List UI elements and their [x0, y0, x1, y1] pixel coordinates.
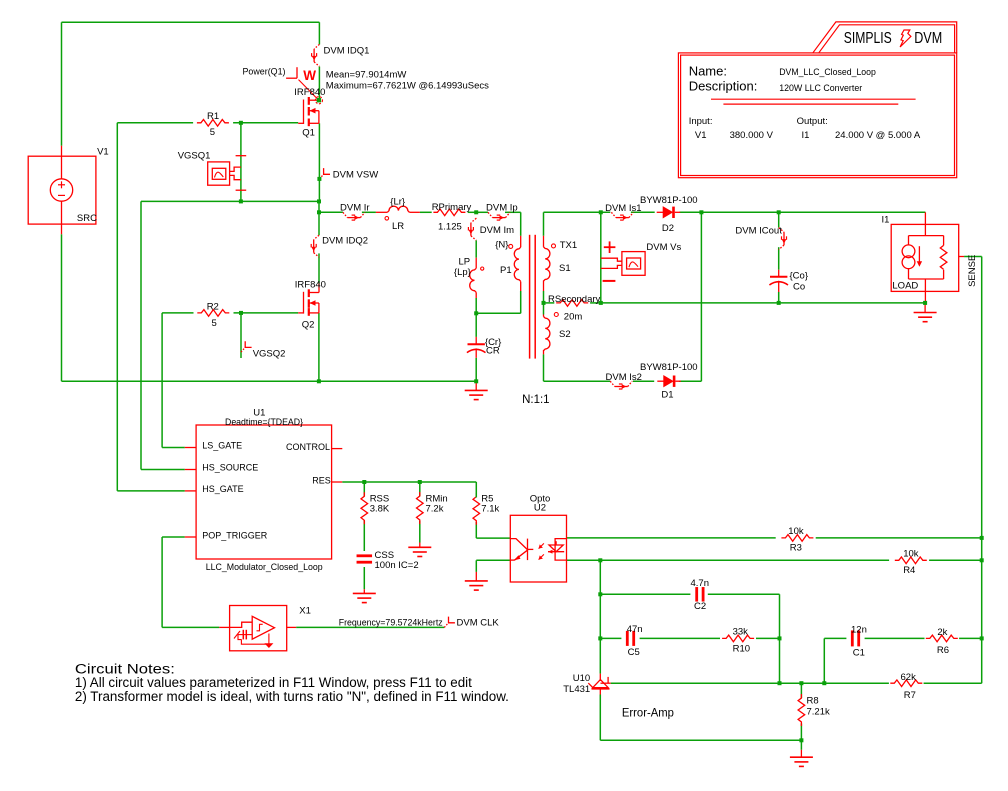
- svg-text:U2: U2: [534, 503, 546, 514]
- svg-text:V1: V1: [97, 147, 109, 158]
- svg-text:D1: D1: [661, 390, 673, 401]
- svg-text:3.8K: 3.8K: [370, 504, 390, 515]
- svg-text:I1: I1: [802, 130, 810, 141]
- svg-text:LP: LP: [459, 257, 471, 268]
- svg-text:X1: X1: [299, 605, 311, 616]
- svg-text:Q2: Q2: [302, 319, 315, 330]
- svg-text:1) All circuit values paramete: 1) All circuit values parameterized in F…: [75, 675, 472, 690]
- svg-text:Power(Q1): Power(Q1): [243, 67, 286, 78]
- svg-text:U10: U10: [573, 673, 590, 684]
- svg-text:DVM Ir: DVM Ir: [340, 203, 370, 214]
- svg-text:{Lr}: {Lr}: [390, 197, 405, 208]
- svg-text:24.000 V @ 5.000 A: 24.000 V @ 5.000 A: [835, 130, 921, 141]
- svg-text:5: 5: [210, 127, 215, 138]
- svg-text:BYW81P-100: BYW81P-100: [640, 195, 698, 206]
- svg-text:V1: V1: [695, 130, 707, 141]
- svg-text:LS_GATE: LS_GATE: [202, 440, 242, 450]
- svg-text:SRC: SRC: [77, 213, 97, 224]
- svg-text:SENSE: SENSE: [967, 255, 978, 287]
- svg-text:CONTROL: CONTROL: [286, 442, 330, 452]
- svg-text:Output:: Output:: [797, 116, 828, 127]
- svg-text:IRF840: IRF840: [294, 87, 325, 98]
- svg-text:S2: S2: [559, 329, 571, 340]
- svg-text:{Co}: {Co}: [790, 271, 809, 282]
- svg-text:TX1: TX1: [560, 240, 577, 251]
- svg-text:DVM: DVM: [914, 30, 942, 47]
- svg-text:R8: R8: [807, 696, 819, 707]
- svg-text:Description:: Description:: [689, 78, 758, 93]
- svg-text:N:1:1: N:1:1: [522, 394, 550, 406]
- svg-text:RSecondary: RSecondary: [548, 294, 601, 305]
- svg-text:Error-Amp: Error-Amp: [622, 706, 674, 720]
- svg-text:S1: S1: [559, 263, 571, 274]
- svg-text:380.000 V: 380.000 V: [730, 130, 774, 141]
- svg-text:DVM_LLC_Closed_Loop: DVM_LLC_Closed_Loop: [779, 67, 876, 78]
- svg-text:P1: P1: [500, 265, 512, 276]
- svg-text:{N}: {N}: [495, 239, 508, 250]
- svg-text:D2: D2: [662, 223, 674, 234]
- svg-text:LR: LR: [392, 221, 404, 232]
- svg-text:DVM Ip: DVM Ip: [486, 203, 518, 214]
- svg-text:12n: 12n: [851, 625, 867, 636]
- svg-text:20m: 20m: [564, 311, 583, 322]
- svg-text:2) Transformer model is ideal,: 2) Transformer model is ideal, with turn…: [75, 689, 509, 704]
- svg-text:R6: R6: [937, 645, 949, 656]
- svg-text:DVM VSW: DVM VSW: [333, 169, 378, 180]
- svg-text:R1: R1: [207, 111, 219, 122]
- svg-text:100n IC=2: 100n IC=2: [375, 560, 419, 571]
- svg-text:4.7n: 4.7n: [691, 578, 710, 589]
- svg-text:DVM CLK: DVM CLK: [457, 617, 500, 628]
- svg-text:Co: Co: [793, 281, 805, 292]
- svg-text:7.1k: 7.1k: [481, 504, 499, 515]
- svg-text:7.21k: 7.21k: [807, 707, 830, 718]
- svg-text:7.2k: 7.2k: [426, 504, 444, 515]
- svg-text:LOAD: LOAD: [892, 281, 918, 292]
- svg-text:10k: 10k: [788, 526, 804, 537]
- svg-text:Maximum=67.7621W @6.14993uSecs: Maximum=67.7621W @6.14993uSecs: [326, 80, 489, 91]
- svg-text:SIMPLIS: SIMPLIS: [844, 30, 892, 47]
- svg-text:R2: R2: [207, 301, 219, 312]
- svg-text:Q1: Q1: [302, 127, 315, 138]
- svg-text:R3: R3: [790, 542, 802, 553]
- svg-text:DVM Im: DVM Im: [480, 225, 514, 236]
- svg-text:RPrimary: RPrimary: [432, 202, 472, 213]
- svg-text:CR: CR: [486, 346, 500, 357]
- svg-text:IRF840: IRF840: [295, 280, 326, 291]
- svg-text:DVM Is1: DVM Is1: [605, 203, 641, 214]
- svg-text:120W LLC Converter: 120W LLC Converter: [779, 83, 862, 94]
- svg-text:W: W: [303, 68, 316, 83]
- svg-text:33k: 33k: [733, 627, 749, 638]
- svg-text:47n: 47n: [627, 624, 643, 635]
- svg-text:R10: R10: [733, 644, 750, 655]
- svg-text:{Lp}: {Lp}: [454, 267, 471, 278]
- svg-text:R4: R4: [903, 565, 915, 576]
- svg-text:DVM IDQ1: DVM IDQ1: [324, 46, 370, 57]
- svg-text:R7: R7: [904, 690, 916, 701]
- svg-text:TL431: TL431: [563, 684, 590, 695]
- svg-text:LLC_Modulator_Closed_Loop: LLC_Modulator_Closed_Loop: [206, 562, 323, 573]
- svg-text:10k: 10k: [903, 549, 919, 560]
- svg-text:5: 5: [212, 318, 217, 329]
- svg-text:Frequency=79.5724kHertz: Frequency=79.5724kHertz: [339, 617, 443, 628]
- svg-text:Input:: Input:: [689, 116, 713, 127]
- svg-text:C1: C1: [853, 647, 865, 658]
- svg-text:I1: I1: [882, 215, 890, 226]
- svg-text:C2: C2: [694, 601, 706, 612]
- svg-text:DVM Vs: DVM Vs: [646, 242, 681, 253]
- svg-text:Mean=97.9014mW: Mean=97.9014mW: [326, 70, 407, 81]
- svg-text:HS_GATE: HS_GATE: [202, 484, 243, 494]
- svg-text:Name:: Name:: [689, 63, 727, 78]
- svg-text:HS_SOURCE: HS_SOURCE: [202, 462, 258, 472]
- svg-text:DVM Is2: DVM Is2: [606, 372, 642, 383]
- svg-text:62k: 62k: [901, 672, 917, 683]
- svg-text:1.125: 1.125: [438, 221, 462, 232]
- svg-text:BYW81P-100: BYW81P-100: [640, 362, 698, 373]
- svg-text:RES: RES: [312, 475, 331, 485]
- svg-text:C5: C5: [628, 647, 640, 658]
- svg-text:CSS: CSS: [375, 550, 395, 561]
- svg-text:POP_TRIGGER: POP_TRIGGER: [202, 530, 268, 540]
- svg-text:DVM IDQ2: DVM IDQ2: [322, 236, 368, 247]
- svg-text:VGSQ1: VGSQ1: [178, 150, 211, 161]
- svg-text:2k: 2k: [937, 627, 947, 638]
- svg-text:Deadtime={TDEAD}: Deadtime={TDEAD}: [225, 417, 303, 428]
- svg-text:DVM ICout: DVM ICout: [735, 226, 782, 237]
- svg-text:VGSQ2: VGSQ2: [253, 349, 286, 360]
